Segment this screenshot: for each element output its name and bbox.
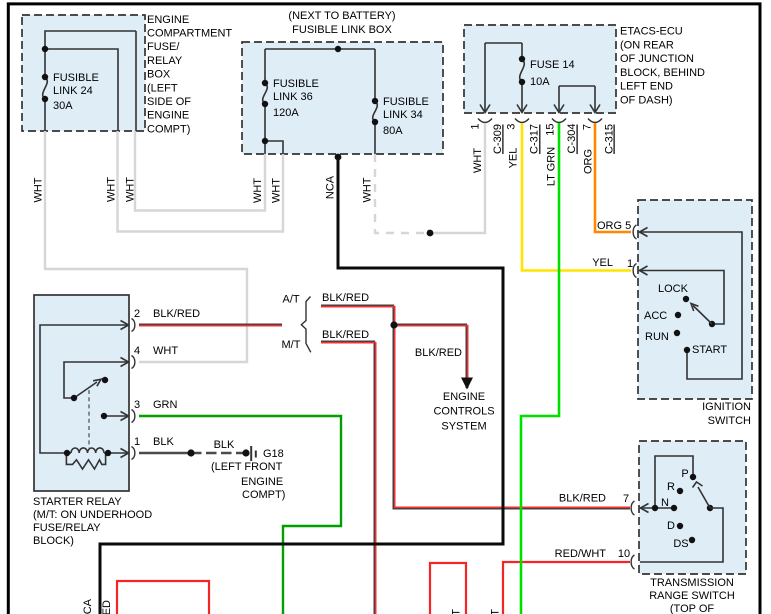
label: ETACS-ECU (ON REAR OF JUNCTION BLOCK, BEHIND LEFT END OF DASH) bbox=[620, 26, 705, 107]
svg-text:FUSE/RELAY: FUSE/RELAY bbox=[33, 522, 101, 534]
connector: TRS pin 10 terminal bbox=[631, 555, 634, 569]
svg-text:WHT: WHT bbox=[32, 177, 44, 202]
wire ORG: ETACS to ignition switch bbox=[595, 123, 631, 232]
svg-text:A/T: A/T bbox=[283, 294, 300, 306]
svg-text:ENGINE: ENGINE bbox=[241, 476, 283, 488]
svg-text:(LEFT FRONT: (LEFT FRONT bbox=[211, 461, 283, 473]
ignition switch dashed enclosure bbox=[638, 200, 752, 399]
wire RED: bottom left loop bbox=[117, 581, 209, 614]
svg-text:WHT: WHT bbox=[252, 178, 264, 203]
svg-text:FUSIBLE: FUSIBLE bbox=[53, 72, 99, 84]
svg-text:BLK: BLK bbox=[214, 439, 235, 451]
label: FUSIBLE LINK 36 120A bbox=[273, 78, 319, 119]
svg-text:WHT: WHT bbox=[125, 177, 137, 202]
svg-text:10: 10 bbox=[618, 548, 630, 560]
svg-text:C-317: C-317 bbox=[529, 124, 541, 154]
svg-text:CONTROLS: CONTROLS bbox=[433, 406, 494, 418]
node: fuse 14 terminals bbox=[519, 56, 525, 62]
node: switch common bbox=[709, 321, 715, 327]
svg-text:WHT: WHT bbox=[451, 609, 463, 614]
node: coil terminals bbox=[64, 450, 70, 456]
svg-text:NCA: NCA bbox=[82, 598, 94, 614]
svg-text:1: 1 bbox=[470, 123, 482, 129]
svg-text:1: 1 bbox=[627, 258, 633, 270]
wire: bus inside fusible link box bbox=[265, 49, 375, 154]
svg-text:BLK/RED: BLK/RED bbox=[322, 292, 369, 304]
node: BLK/RED junction dot bbox=[390, 321, 397, 328]
arrow: to engine controls system (filled) bbox=[461, 378, 473, 390]
label: IGNITION SWITCH bbox=[702, 401, 751, 427]
node: fusible link 34 terminals bbox=[372, 98, 378, 104]
connector C-317 terminal cup bbox=[515, 119, 529, 123]
wire: relay pin3 contact bbox=[104, 415, 128, 417]
svg-text:M/T: M/T bbox=[282, 339, 301, 351]
svg-text:D: D bbox=[667, 520, 675, 532]
svg-text:OF JUNCTION: OF JUNCTION bbox=[620, 53, 694, 65]
svg-text:P: P bbox=[681, 468, 688, 480]
connector: TRS pin 7 terminal bbox=[631, 501, 634, 515]
wire RED: bottom middle loop bbox=[430, 563, 466, 614]
arrow: relay arm head bbox=[93, 379, 101, 386]
svg-text:YEL: YEL bbox=[508, 148, 520, 169]
label: G18 (LEFT FRONT ENGINE COMPT) bbox=[211, 448, 285, 501]
svg-text:WHT: WHT bbox=[472, 148, 484, 173]
svg-text:(NEXT TO BATTERY): (NEXT TO BATTERY) bbox=[288, 10, 395, 22]
node: N contact bbox=[671, 505, 677, 511]
svg-text:SIDE OF: SIDE OF bbox=[147, 96, 191, 108]
fusible link 24 element bbox=[43, 77, 48, 99]
svg-text:BLK/RED: BLK/RED bbox=[322, 329, 369, 341]
connector: relay pin 4 terminal bbox=[132, 356, 135, 369]
svg-text:LINK 24: LINK 24 bbox=[53, 85, 93, 97]
wire YEL: fuse 14 to ignition switch bbox=[522, 123, 631, 271]
svg-text:FUSE 14: FUSE 14 bbox=[530, 59, 575, 71]
svg-text:WHT: WHT bbox=[490, 609, 502, 614]
connector: relay pin 3 terminal bbox=[132, 410, 135, 423]
TRS switch arm bbox=[698, 487, 710, 508]
connector C-315 terminal cup bbox=[588, 119, 602, 123]
svg-text:ENGINE: ENGINE bbox=[147, 14, 189, 26]
svg-text:C-304: C-304 bbox=[566, 124, 578, 154]
svg-text:BLOCK, BEHIND: BLOCK, BEHIND bbox=[620, 67, 705, 79]
svg-text:ORG: ORG bbox=[582, 149, 594, 174]
wire GRN: relay pin 3 run bbox=[139, 416, 341, 614]
svg-text:IGNITION: IGNITION bbox=[702, 401, 751, 413]
arrow: ignition arm head bbox=[691, 304, 699, 312]
node: fusible link 24 bottom terminal bbox=[42, 96, 48, 102]
arrow: relay pin 4 bbox=[121, 358, 129, 367]
svg-text:7: 7 bbox=[623, 493, 629, 505]
node: START contact bbox=[684, 347, 690, 353]
svg-text:ENGINE: ENGINE bbox=[147, 110, 189, 122]
svg-text:ACC: ACC bbox=[644, 310, 667, 322]
svg-text:BLK/RED: BLK/RED bbox=[415, 347, 462, 359]
node: RUN contact bbox=[674, 330, 680, 336]
svg-text:WHT: WHT bbox=[106, 177, 118, 202]
arrow: TRS pin 7 bbox=[641, 504, 649, 513]
svg-text:RED: RED bbox=[101, 600, 113, 614]
arrow: ETACS pin 1 output bbox=[480, 105, 490, 113]
svg-text:START: START bbox=[692, 344, 727, 356]
svg-text:SWITCH: SWITCH bbox=[708, 415, 751, 427]
wire BLK dashed continuation bbox=[191, 452, 246, 454]
connector: relay pin 1 terminal bbox=[132, 447, 135, 460]
connector C-304 terminal cup bbox=[552, 119, 566, 123]
svg-text:80A: 80A bbox=[383, 125, 403, 137]
node: TRS junction dot bbox=[652, 505, 658, 511]
node: P contact bbox=[690, 474, 696, 480]
svg-text:(TOP OF: (TOP OF bbox=[670, 603, 714, 614]
node: LOCK contact bbox=[683, 296, 689, 302]
svg-text:30A: 30A bbox=[53, 100, 73, 112]
wire: relay pin4 to switch pivot bbox=[64, 362, 128, 398]
wire: ignition YEL feed to switch common bbox=[639, 271, 724, 325]
fusible link 34 element bbox=[373, 101, 378, 122]
wire: TRS junction to P contact bbox=[655, 456, 693, 508]
arrow: ETACS pin 15 output bbox=[554, 105, 564, 113]
node: DS contact bbox=[689, 537, 695, 543]
svg-text:3: 3 bbox=[506, 124, 518, 130]
relay coil resistor (zigzag) bbox=[66, 453, 105, 469]
wire: TRS pin7 to N contact bbox=[640, 507, 674, 509]
fusible link 36 element bbox=[263, 83, 268, 104]
svg-text:COMPT): COMPT) bbox=[147, 123, 190, 135]
svg-text:BLK/RED: BLK/RED bbox=[153, 308, 200, 320]
relay switch arm bbox=[74, 382, 97, 398]
svg-text:ENGINE: ENGINE bbox=[443, 391, 485, 403]
wire: TRS common to pin 10 bbox=[640, 508, 723, 562]
svg-text:BLK: BLK bbox=[153, 436, 174, 448]
svg-text:LINK 34: LINK 34 bbox=[383, 109, 423, 121]
wire BLK/RED: junction down to transmission range switch pin 7 bbox=[393, 325, 630, 509]
svg-text:NCA: NCA bbox=[325, 175, 337, 199]
connector C-309 terminal cup bbox=[478, 119, 492, 123]
svg-text:2: 2 bbox=[134, 308, 140, 320]
svg-text:LT GRN: LT GRN bbox=[545, 147, 557, 186]
svg-text:FUSIBLE: FUSIBLE bbox=[383, 96, 429, 108]
svg-text:LINK 36: LINK 36 bbox=[273, 91, 313, 103]
wire BLK: relay pin 1 to ground bbox=[139, 452, 191, 454]
label: ENGINE COMPARTMENT FUSE/RELAY BOX bbox=[147, 14, 232, 136]
svg-text:RELAY: RELAY bbox=[147, 55, 183, 67]
wire BLK/RED: A/T branch to junction bbox=[321, 305, 393, 325]
node: ACC contact bbox=[675, 312, 681, 318]
wire BLK/RED: M/T branch down bbox=[321, 341, 374, 614]
svg-text:10A: 10A bbox=[530, 76, 550, 88]
svg-text:LEFT END: LEFT END bbox=[620, 81, 673, 93]
node: relay NO contact bbox=[102, 377, 108, 383]
fuse/relay box (engine compartment) dashed enclosure bbox=[22, 15, 145, 131]
wire WHT: box1 to fusible link box branch bbox=[118, 131, 284, 232]
svg-text:R: R bbox=[667, 481, 675, 493]
label: FUSIBLE LINK 24 30A bbox=[53, 72, 99, 112]
wire WHT: splice to ETACS pin 1 bbox=[430, 123, 485, 233]
wire: ignition ORG feed to START contact bbox=[639, 232, 742, 379]
svg-text:ETACS-ECU: ETACS-ECU bbox=[620, 26, 683, 38]
label: TRANSMISSION RANGE SWITCH (TOP OF bbox=[649, 577, 735, 614]
label: ENGINE CONTROLS SYSTEM bbox=[433, 391, 494, 433]
svg-text:FUSIBLE: FUSIBLE bbox=[273, 78, 319, 90]
label: STARTER RELAY (M/T: ON UNDERHOOD FUSE/RELAY BLOCK) bbox=[33, 496, 152, 547]
node: fusible link 36 terminals bbox=[262, 80, 268, 86]
svg-text:BOX: BOX bbox=[147, 69, 171, 81]
wire WHT: box1 to fusible link 36 bbox=[135, 131, 265, 211]
arrow: relay pin 1 bbox=[121, 449, 129, 458]
ground G18 bbox=[250, 446, 252, 461]
label: (NEXT TO BATTERY) FUSIBLE LINK BOX bbox=[288, 10, 395, 36]
arrow: TRS arm head bbox=[693, 482, 703, 488]
connector: relay pin 2 terminal bbox=[132, 319, 135, 332]
svg-text:YEL: YEL bbox=[592, 257, 613, 269]
starter relay enclosure bbox=[34, 295, 129, 491]
svg-text:DS: DS bbox=[673, 538, 688, 550]
svg-text:ORG 5: ORG 5 bbox=[597, 220, 631, 232]
transmission range switch dashed enclosure bbox=[639, 441, 746, 574]
ETACS-ECU dashed enclosure bbox=[464, 25, 616, 113]
svg-text:N: N bbox=[661, 497, 669, 509]
node: relay arm pivot bbox=[71, 395, 77, 401]
node: R contact bbox=[677, 488, 683, 494]
node: NCA junction dot below box bbox=[335, 154, 342, 161]
label: FUSIBLE LINK 34 80A bbox=[383, 96, 429, 137]
node: top bus junction dot bbox=[335, 46, 341, 52]
arrow: ETACS pin 3 output bbox=[517, 105, 527, 113]
wire: bus inside fuse/relay box bbox=[45, 31, 136, 131]
relay coil K1 (inductor) bbox=[67, 448, 128, 453]
svg-text:RUN: RUN bbox=[645, 331, 669, 343]
svg-text:G18: G18 bbox=[263, 448, 284, 460]
svg-text:STARTER RELAY: STARTER RELAY bbox=[33, 496, 122, 508]
wire LT GRN: ETACS pin 15 down (with jog) bbox=[521, 123, 559, 614]
arrow: ETACS pin 7 output bbox=[590, 105, 600, 113]
fusible link box (next to battery) dashed enclosure bbox=[242, 42, 443, 154]
arrow: relay pin 2 bbox=[121, 321, 129, 330]
arrow: relay pin 3 bbox=[121, 412, 129, 421]
node: junction dot in box1 bbox=[42, 46, 48, 52]
connector: ignition pin 5 terminal bbox=[633, 225, 636, 239]
svg-text:7: 7 bbox=[582, 124, 594, 130]
wire WHT dashed: fusible link 34 not-connected run bbox=[375, 154, 430, 233]
fuse F14 element bbox=[520, 59, 525, 82]
ignition switch arm bbox=[693, 306, 712, 325]
wire: relay pin2 to coil bbox=[40, 325, 128, 453]
wire BLK/RED: relay pin 2 (two tone) bbox=[139, 323, 282, 325]
svg-text:120A: 120A bbox=[273, 107, 299, 119]
svg-text:BLK/RED: BLK/RED bbox=[559, 493, 606, 505]
svg-text:COMPT): COMPT) bbox=[242, 489, 285, 501]
label: FUSE 14 10A bbox=[530, 59, 575, 88]
svg-text:(ON REAR: (ON REAR bbox=[620, 39, 674, 51]
svg-text:FUSIBLE LINK BOX: FUSIBLE LINK BOX bbox=[292, 24, 392, 36]
wire RED/WHT: to TRS pin 10 bbox=[503, 562, 630, 614]
svg-text:OF DASH): OF DASH) bbox=[620, 95, 673, 107]
svg-text:(LEFT: (LEFT bbox=[147, 82, 178, 94]
svg-text:WHT: WHT bbox=[271, 178, 283, 203]
node: TRS common bbox=[707, 505, 713, 511]
mechanical link (dashed) bbox=[88, 390, 90, 448]
wire BLK/RED: junction to engine controls arrow bbox=[394, 324, 466, 388]
svg-text:4: 4 bbox=[134, 345, 140, 357]
connector: ignition pin 1 terminal bbox=[633, 264, 636, 278]
svg-text:C-309: C-309 bbox=[492, 124, 504, 154]
svg-text:RED/WHT: RED/WHT bbox=[555, 548, 607, 560]
node: branch junction dot bbox=[262, 138, 268, 144]
svg-text:GRN: GRN bbox=[153, 399, 178, 411]
svg-text:3: 3 bbox=[134, 399, 140, 411]
svg-text:LOCK: LOCK bbox=[658, 283, 689, 295]
node: D contact bbox=[677, 523, 683, 529]
svg-text:COMPARTMENT: COMPARTMENT bbox=[147, 28, 232, 40]
node: BLK splice dots bbox=[187, 449, 194, 456]
svg-text:SYSTEM: SYSTEM bbox=[441, 421, 486, 433]
svg-text:WHT: WHT bbox=[362, 177, 374, 202]
node: fusible link 24 top terminal bbox=[42, 74, 48, 80]
svg-text:FUSE/: FUSE/ bbox=[147, 41, 180, 53]
node: pin3 contact dot bbox=[101, 413, 107, 419]
svg-text:BLOCK): BLOCK) bbox=[33, 535, 74, 547]
svg-text:TRANSMISSION: TRANSMISSION bbox=[650, 577, 734, 589]
svg-text:15: 15 bbox=[545, 123, 557, 135]
svg-text:RANGE SWITCH: RANGE SWITCH bbox=[649, 590, 735, 602]
svg-text:1: 1 bbox=[134, 436, 140, 448]
wire WHT: fusible link 24 to starter relay pin 4 bbox=[45, 131, 247, 362]
brace for A/T-M/T split bbox=[301, 297, 311, 353]
wire NCA: battery feed (thick black) bbox=[100, 154, 503, 614]
wire: ETACS internal feeds bbox=[485, 43, 595, 112]
arrow: ignition pin 5 bbox=[640, 228, 648, 237]
arrow: ignition pin 1 bbox=[640, 266, 648, 275]
svg-text:(M/T: ON UNDERHOOD: (M/T: ON UNDERHOOD bbox=[33, 509, 152, 521]
node: splice dot on WHT run bbox=[427, 230, 434, 237]
svg-text:WHT: WHT bbox=[153, 345, 178, 357]
